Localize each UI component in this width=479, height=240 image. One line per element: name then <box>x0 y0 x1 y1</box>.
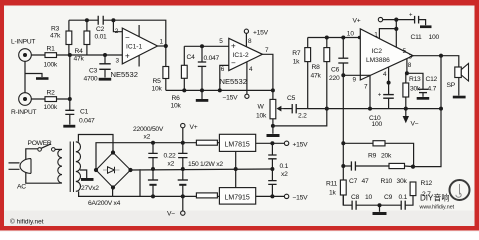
svg-text:4.7: 4.7 <box>428 86 437 93</box>
V+ terminal <box>353 17 383 24</box>
svg-text:0.047: 0.047 <box>79 118 95 125</box>
svg-text:47k: 47k <box>50 33 61 40</box>
wire R7 leads <box>307 38 309 109</box>
wire V+ rail <box>383 19 415 21</box>
svg-text:C4: C4 <box>187 54 196 61</box>
svg-text:C2: C2 <box>96 26 105 33</box>
wire pin9 feedback vertical <box>342 63 344 205</box>
svg-text:+: + <box>125 52 130 61</box>
wire R5 leads <box>165 46 167 90</box>
svg-text:LM7815: LM7815 <box>225 142 250 149</box>
wire pot bottom to R8 node <box>273 109 327 126</box>
svg-text:10: 10 <box>365 194 372 201</box>
ground (pot) <box>267 134 280 137</box>
capacitor bank column 2 0.22 <box>178 141 187 171</box>
svg-text:100: 100 <box>429 34 440 41</box>
svg-text:+: + <box>378 93 382 99</box>
bridge rectifier D1 <box>88 150 133 207</box>
svg-text:100k: 100k <box>44 104 58 111</box>
svg-text:8: 8 <box>248 38 252 45</box>
svg-text:+: + <box>231 42 236 51</box>
ground (C4) <box>196 99 209 102</box>
capacitor C5 <box>284 95 308 120</box>
svg-text:R2: R2 <box>47 90 56 97</box>
resistor R8 <box>311 48 330 80</box>
wire -15V output <box>256 195 285 197</box>
svg-text:10k: 10k <box>171 103 182 110</box>
svg-text:−: − <box>125 33 130 42</box>
resistor 150 (negative) <box>196 193 219 198</box>
svg-text:10: 10 <box>347 31 355 38</box>
wire pin4 stub <box>246 62 248 94</box>
svg-text:1: 1 <box>374 32 378 39</box>
svg-text:1: 1 <box>160 39 164 46</box>
wire plug to primary bottom <box>26 172 59 183</box>
capacitor C7 <box>343 161 389 185</box>
wire secondary bottom tap <box>79 191 113 196</box>
capacitor C3 <box>84 55 111 83</box>
wire R13 leads <box>405 73 407 108</box>
resistor R11 <box>326 180 346 197</box>
wire secondary center tap <box>80 170 87 178</box>
wire pin4 stub <box>388 67 390 95</box>
wire R jack to R2 to node <box>31 98 70 100</box>
svg-text:C1: C1 <box>80 109 89 116</box>
resistor R5 <box>152 67 169 93</box>
capacitor C12 <box>407 73 438 97</box>
wire pin6 <box>220 65 229 90</box>
svg-text:R6: R6 <box>172 95 181 102</box>
capacitor 0.1 lower <box>268 167 276 196</box>
-15V terminal (supply) <box>284 194 308 201</box>
resistor 150 (positive) <box>196 140 219 145</box>
svg-text:3: 3 <box>409 54 413 61</box>
svg-text:C12: C12 <box>426 76 438 83</box>
svg-text:V−: V− <box>167 211 175 218</box>
svg-text:6: 6 <box>221 66 225 73</box>
svg-text:W: W <box>258 104 265 111</box>
svg-text:SP: SP <box>447 82 456 89</box>
capacitor C4 <box>187 46 220 99</box>
wire R6 leads <box>183 46 185 90</box>
wire R3 leads <box>68 20 70 55</box>
resistor R12 <box>410 180 432 198</box>
svg-text:V−: V− <box>411 121 419 128</box>
wire pot bottom to ground <box>272 119 274 134</box>
svg-text:4700: 4700 <box>84 76 98 83</box>
svg-text:NE5532: NE5532 <box>111 70 138 79</box>
capacitor C2 <box>95 16 108 41</box>
node at R1 line <box>68 53 72 57</box>
speaker SP <box>447 63 469 95</box>
ground (C1) <box>63 125 75 128</box>
resistor R9 <box>343 141 413 167</box>
svg-text:2.2: 2.2 <box>298 113 307 120</box>
capacitor bank column 2 22000u <box>178 169 188 198</box>
svg-text:R5: R5 <box>153 78 162 85</box>
svg-text:R12: R12 <box>421 180 433 187</box>
svg-text:7: 7 <box>364 84 368 91</box>
svg-text:27Vx2: 27Vx2 <box>81 185 99 192</box>
svg-text:DIY音响: DIY音响 <box>420 193 449 203</box>
feedback top wire <box>69 20 166 46</box>
wire mixing node vertical <box>69 55 71 99</box>
wire switch to primary top <box>55 148 62 150</box>
svg-text:150 1/2W x2: 150 1/2W x2 <box>188 161 223 168</box>
svg-text:10k: 10k <box>152 86 163 93</box>
capacitor bank column 1 22000u <box>148 169 158 198</box>
svg-text:C11: C11 <box>411 34 423 41</box>
capacitor C6 <box>329 38 348 83</box>
+15V terminal (IC1-2 pin8) <box>244 29 268 36</box>
svg-text:POWER: POWER <box>28 140 52 147</box>
ground (speaker) <box>453 96 466 99</box>
svg-text:−: − <box>231 59 236 68</box>
svg-text:V+: V+ <box>353 18 361 25</box>
svg-text:4: 4 <box>383 71 387 78</box>
wire to pin5 <box>184 45 229 47</box>
svg-text:R13: R13 <box>409 76 421 83</box>
capacitor C11 <box>409 13 439 42</box>
power amp IC2 LM3886 <box>347 29 413 91</box>
svg-text:R1: R1 <box>47 46 56 53</box>
svg-text:+15V: +15V <box>253 30 269 37</box>
wire feedback from output <box>413 56 441 167</box>
wire bridge bottom to -rail <box>112 188 114 197</box>
wire signal to pin10 <box>308 37 361 39</box>
svg-text:100: 100 <box>372 121 383 128</box>
V+ terminal (supply) <box>181 123 198 142</box>
wire pin2 drop <box>113 20 122 32</box>
ground (center tap) <box>81 178 94 181</box>
bottom watermark strip <box>4 211 474 227</box>
svg-text:C5: C5 <box>287 95 296 102</box>
svg-text:0.22: 0.22 <box>164 153 177 160</box>
wire pin7 stub <box>369 76 371 109</box>
capacitor C9 <box>384 194 408 210</box>
regulator LM7915 <box>219 188 255 205</box>
capacitor C8 <box>351 194 372 210</box>
wire bridge right + mid rail <box>131 169 273 196</box>
wire lower bus y90 <box>166 89 273 91</box>
regulator LM7815 <box>219 134 255 151</box>
resistor R4 <box>74 31 90 63</box>
capacitor C10 <box>369 93 394 129</box>
svg-text:R-INPUT: R-INPUT <box>11 109 37 116</box>
ground (C12) <box>417 97 430 100</box>
resistor R3 <box>50 26 72 45</box>
ground (input jacks) <box>36 77 49 80</box>
svg-text:IC1-2: IC1-2 <box>233 52 249 59</box>
svg-text:47k: 47k <box>311 73 322 80</box>
wire regulators common <box>235 151 237 187</box>
svg-text:0.1: 0.1 <box>280 163 289 170</box>
svg-text:+: + <box>409 13 413 19</box>
wire plug to switch <box>26 149 38 160</box>
resistor R10 <box>381 163 414 185</box>
wire R8 leads <box>326 38 328 109</box>
red border frame <box>0 0 479 6</box>
svg-text:IC2: IC2 <box>372 48 383 55</box>
wire pin9 stub <box>343 74 370 76</box>
wire R4 leads <box>86 20 88 55</box>
svg-text:R10: R10 <box>381 178 393 185</box>
svg-text:C6: C6 <box>331 67 340 74</box>
wire IC1-2 output down <box>262 54 273 99</box>
svg-text:7: 7 <box>265 47 269 54</box>
wire L jack to R1 to node <box>31 54 122 56</box>
transformer T1 <box>58 142 99 193</box>
resistor R7 <box>292 48 310 66</box>
svg-text:L-INPUT: L-INPUT <box>11 39 35 46</box>
op-amp IC1-1 <box>111 25 164 79</box>
wire -rail <box>113 195 197 197</box>
svg-text:C7: C7 <box>349 178 358 185</box>
svg-text:LM3886: LM3886 <box>366 57 390 64</box>
wire IC1-1 output <box>158 45 166 47</box>
svg-text:© hifidiy.net: © hifidiy.net <box>10 218 44 226</box>
+15V terminal (supply) <box>284 141 308 148</box>
svg-text:0.047: 0.047 <box>204 55 220 62</box>
svg-text:R8: R8 <box>312 64 321 71</box>
wire secondary top tap <box>78 135 113 153</box>
L input jack J1 <box>11 39 35 62</box>
svg-text:9: 9 <box>353 77 357 84</box>
svg-text:100k: 100k <box>44 62 58 69</box>
resistor R13 <box>403 76 421 97</box>
svg-text:1k: 1k <box>329 190 336 197</box>
V- arrow <box>403 109 419 128</box>
capacitor 0.1 upper <box>268 143 276 169</box>
ground (C11) <box>420 25 432 28</box>
svg-text:V+: V+ <box>190 124 198 131</box>
svg-text:2: 2 <box>115 28 119 35</box>
R input jack J2 <box>11 93 37 116</box>
op-amp IC1-2 <box>219 38 269 86</box>
wire mute bus y108.6 <box>308 108 441 110</box>
wire bottom feedback <box>343 195 413 205</box>
svg-text:+15V: +15V <box>293 142 309 149</box>
wire jack shells to ground <box>25 61 42 92</box>
potentiometer W 10k <box>256 99 284 119</box>
svg-text:30k: 30k <box>397 178 408 185</box>
svg-text:22000/50V: 22000/50V <box>133 126 164 133</box>
svg-text:6A/200V x4: 6A/200V x4 <box>88 200 121 207</box>
ground (C3) <box>99 78 112 81</box>
-15V terminal (IC1-2 pin4) <box>223 94 249 101</box>
svg-text:−15V: −15V <box>293 195 309 202</box>
svg-text:R11: R11 <box>326 181 338 188</box>
svg-text:NE5532: NE5532 <box>220 77 247 86</box>
svg-text:x2: x2 <box>281 171 288 178</box>
svg-text:5: 5 <box>403 48 407 55</box>
capacitor bank column 1 0.22 <box>148 141 157 171</box>
wire pin8 stub <box>245 33 247 47</box>
ground (feedback) <box>373 203 387 215</box>
svg-text:C3: C3 <box>89 68 98 75</box>
watermark logo <box>450 180 470 200</box>
node at R2 line <box>68 97 72 101</box>
svg-text:R4: R4 <box>75 48 84 55</box>
svg-text:3: 3 <box>116 58 120 65</box>
svg-text:x2: x2 <box>168 161 175 168</box>
resistor R1 <box>44 46 58 69</box>
svg-text:IC1-1: IC1-1 <box>126 44 142 51</box>
svg-text:220: 220 <box>329 75 340 82</box>
resistor R2 <box>44 90 58 112</box>
wire pin8 stub <box>406 59 408 74</box>
wire output <box>413 56 459 67</box>
wire pin1 network <box>379 20 396 48</box>
AC plug <box>9 159 32 191</box>
svg-text:5: 5 <box>219 38 223 45</box>
switch POWER <box>28 140 56 151</box>
svg-text:www.hifidiy.net: www.hifidiy.net <box>420 205 455 211</box>
svg-text:R9: R9 <box>368 153 377 160</box>
svg-text:47: 47 <box>362 178 369 185</box>
svg-text:20k: 20k <box>381 153 392 160</box>
svg-text:R3: R3 <box>51 26 60 33</box>
svg-text:R7: R7 <box>292 50 301 57</box>
svg-text:1k: 1k <box>293 59 300 66</box>
svg-text:AC: AC <box>17 184 26 191</box>
V- terminal (supply) <box>167 196 185 217</box>
svg-text:C9: C9 <box>384 194 393 201</box>
wire bridge left to +rail <box>96 143 196 170</box>
svg-text:10k: 10k <box>256 113 267 120</box>
wire +15V output <box>256 142 285 144</box>
svg-text:−15V: −15V <box>223 95 239 102</box>
svg-text:0.1: 0.1 <box>399 194 408 201</box>
capacitor C1 <box>65 99 95 125</box>
svg-text:C8: C8 <box>351 194 360 201</box>
resistor R6 <box>171 65 188 109</box>
svg-text:47k: 47k <box>74 56 85 63</box>
svg-text:4: 4 <box>249 66 253 73</box>
svg-text:LM7915: LM7915 <box>225 195 250 202</box>
svg-text:x2: x2 <box>144 134 151 141</box>
svg-text:8: 8 <box>408 62 412 69</box>
svg-text:0.01: 0.01 <box>95 34 108 41</box>
